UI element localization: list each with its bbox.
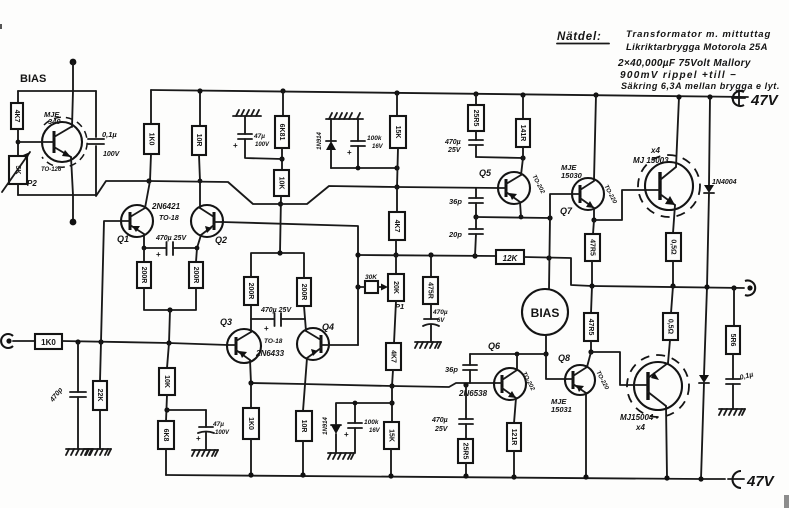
wire 1N4004 line upper [709,97,710,185]
node Q3 emitter [248,380,253,385]
svg-text:0,5Ω: 0,5Ω [670,239,677,255]
capacitor 470p [70,342,86,449]
svg-text:Transformator m. mittuttag: Transformator m. mittuttag [626,29,771,40]
svg-text:25R5: 25R5 [472,110,479,127]
svg-text:1K0: 1K0 [148,133,155,146]
wire x168 chain from input node [167,343,169,368]
wire bias box top edge [18,90,96,92]
wire 47R5 to Q8 collector [590,341,592,352]
resistor 47R5 (lower) [584,313,598,341]
svg-text:4K7: 4K7 [390,350,397,363]
wire 25R5 drop [475,94,477,105]
wire input line [62,341,228,345]
svg-text:475R: 475R [427,282,434,299]
wire 141R to node [522,147,524,158]
node MJ15003 collector rail [676,94,681,99]
node lower net [389,400,394,405]
ground (below 1N914 lower) [328,453,354,459]
svg-text:470µ: 470µ [444,139,461,146]
wire bias bottom [72,195,74,222]
node 25R5 rail [473,91,478,96]
resistor 1K0 (upper) [144,124,159,154]
node output/5R6 [731,285,736,290]
svg-text:4K7: 4K7 [13,110,20,123]
resistor 200R (Q4) [297,278,311,306]
diode D4 1N4004 (lower) [699,375,709,479]
wire to 4K7 upper [396,187,398,212]
svg-text:6K81: 6K81 [278,124,285,141]
svg-text:121R: 121R [510,429,517,446]
svg-text:BIAS: BIAS [531,306,560,320]
svg-text:200R: 200R [247,283,254,300]
node 200R join center (Q3/Q4) [277,250,282,255]
capacitor 47u 100V (upper) [238,133,252,135]
node Q7 emitter [591,217,596,222]
svg-text:20K: 20K [392,281,399,294]
wire 6K8 bottom to rail corner [165,449,167,475]
resistor 121R [507,423,521,451]
node BIAS/Q6 collector [543,351,548,356]
wire lower diode/cap net [336,403,392,424]
wire +47V top rail [151,90,748,97]
node Q7 collector rail [593,92,598,97]
resistor 15K (upper) [390,116,406,148]
transistor Q7 MJE15030 [572,178,604,220]
node 6K81 rail [280,88,285,93]
svg-text:Q6: Q6 [488,341,501,351]
node 141R bottom [520,155,525,160]
wire bias box left upper [17,91,19,103]
svg-text:Q8: Q8 [558,353,570,363]
node rail diode [698,476,703,481]
svg-text:6K8: 6K8 [162,429,169,442]
wire bias top [72,62,74,91]
wire 5R6 drop [733,288,735,326]
node y217 tap [473,214,478,219]
wire 10K bottom to 200R join [280,196,281,253]
wire bias left mid [17,129,19,156]
bias bottom terminal node [70,219,77,226]
node 10K on S-wire [278,201,283,206]
svg-text:P2: P2 [27,179,37,188]
resistor 200R (Q1) [137,262,151,288]
wire S-curve from bias to Q5 base [96,181,498,204]
wiper arrow P2 [2,152,30,192]
svg-text:+: + [344,430,349,439]
resistor 15K (lower) [384,422,399,449]
node rail Q8 [583,474,588,479]
resistor 0,5R (upper) [666,233,681,261]
svg-text:Q5: Q5 [479,168,492,178]
ground (475R) [415,342,441,348]
svg-text:900mV rippel +till −: 900mV rippel +till − [620,70,737,81]
svg-text:25R5: 25R5 [462,443,469,460]
resistor 1K0 (lower) [243,408,259,439]
wire Q7 to MJ15003 base [594,190,646,220]
wire BIAS bottom [545,335,547,354]
svg-text:TO-126: TO-126 [41,167,62,173]
svg-text:+: + [233,141,238,150]
wire bottom rail -47V [166,475,725,479]
wire Q2 emitter to 200R [196,248,197,262]
node 4K7/20K [393,252,398,257]
svg-text:6V: 6V [437,318,445,324]
svg-text:100V: 100V [103,151,121,158]
capacitor 470u 25V (Q1/Q2 emitters) [144,242,197,259]
wire Q1 emitter to 200R [143,248,145,262]
svg-text:10K: 10K [163,375,170,388]
svg-text:100k: 100k [367,135,382,142]
capacitor 470u 6V [423,304,439,342]
wire 10R lower bottom [302,441,304,475]
svg-text:1N914: 1N914 [317,132,323,150]
resistor 0,5R (lower) [663,313,678,340]
potentiometer 20K P1 [388,274,404,301]
svg-text:47µ: 47µ [253,133,265,140]
node output/diode [704,284,709,289]
resistor 22K [93,381,107,410]
diode D2 1N914 (lower) [331,425,341,453]
svg-text:2N6433: 2N6433 [255,349,285,358]
wire 1N4004 line mid-lower [704,287,707,375]
svg-text:100k: 100k [364,419,379,426]
svg-text:4K7: 4K7 [393,220,400,233]
svg-text:BIAS: BIAS [20,73,46,85]
svg-text:Säkring 6,3A mellan brygga e l: Säkring 6,3A mellan brygga e lyt. [621,81,780,91]
potentiometer 5K P2 [9,156,27,184]
node 1N4004 rail [707,94,712,99]
wire Q7 collector [594,95,596,180]
bias top terminal node [70,59,77,66]
svg-text:15K: 15K [394,126,401,139]
wire 0,5R to output rail [672,261,674,286]
node 475R tap [428,252,433,257]
svg-text:Q7: Q7 [560,206,573,216]
svg-text:47V: 47V [750,92,780,109]
svg-text:0,1µ: 0,1µ [102,130,117,139]
wire BIAS to Q8 base [546,354,566,379]
transistor Q5 [498,158,530,217]
transistor Q10 MJ15004 (x4) [627,355,689,477]
transistor Q4 2N6433 [297,306,329,411]
capacitor 47u 100V (lower) [167,410,214,450]
svg-text:Q2: Q2 [215,235,227,245]
svg-text:Likriktarbrygga Motorola 25A: Likriktarbrygga Motorola 25A [626,42,768,53]
wire 0,5R lower to MJ15004 [668,340,670,363]
node rail 121R [511,474,516,479]
node 10R rail [197,88,202,93]
node wiper tap [355,284,360,289]
wire 22K bottom [99,410,101,449]
transistor Q3 2N6433 [227,305,261,383]
node Q1 collector [146,178,151,183]
node rail 15K [388,473,393,478]
capacitor 470u 25V (Q3/Q4) [251,313,304,333]
transistor Q1 2N6421 [121,181,153,248]
input jack J1 [1,334,35,348]
svg-text:0,1µ: 0,1µ [739,371,754,381]
wire 15K drop [396,93,398,116]
svg-text:MJ 15003: MJ 15003 [633,156,669,165]
svg-text:470p: 470p [49,386,65,404]
wire ground to 47u [244,116,246,134]
wire 200R join (Q3/Q4) [251,253,304,278]
wire y217 Q5 emitter line [476,217,550,218]
svg-text:TO-18: TO-18 [159,215,179,222]
svg-text:1N914: 1N914 [323,417,329,435]
svg-text:100V: 100V [255,142,270,148]
wire 1K0 top drop [150,90,152,124]
resistor 5R6 [726,326,740,354]
svg-text:470µ 25V: 470µ 25V [260,307,292,314]
node 470p tap [75,339,80,344]
svg-text:10R: 10R [195,134,202,147]
resistor 4K7 (lower divider) [386,343,401,370]
svg-text:2N6538: 2N6538 [458,389,488,398]
resistor 1K0 (input) [35,334,62,349]
capacitor 0,1u 100V (bias) [88,138,104,140]
wire 47u to 6K81 node [245,139,282,159]
node output/47R5 [589,283,594,288]
wire 47R5 lower drop [591,286,592,313]
resistor 200R (Q2) [189,262,203,288]
output jack J2 [745,281,755,296]
svg-text:470µ 25V: 470µ 25V [155,235,187,242]
svg-text:1K0: 1K0 [41,338,56,347]
svg-text:TO-202: TO-202 [530,174,545,195]
svg-text:2×40,000µF 75Volt Mallory: 2×40,000µF 75Volt Mallory [617,58,751,69]
wire 25R5 bottom [465,463,467,476]
svg-text:340: 340 [48,117,61,126]
power +47V terminal [732,91,780,109]
wire 20K bottom [394,301,396,343]
node rail 25R5 [463,473,468,478]
wire 6K81 drop [282,91,284,116]
svg-text:25V: 25V [434,426,449,433]
node 470u lower tap [463,382,468,387]
capacitor 470u 25V (upper) [469,131,483,157]
node wiper line tap [355,252,360,257]
wire 1K0 to Q1 collector [150,154,151,181]
node Q2 collector [198,179,203,184]
wire 15K bottom [397,148,398,187]
wire 10R top drop [199,91,201,126]
svg-text:15K: 15K [388,429,395,442]
wire 141R drop [522,95,524,119]
capacitor 20p (upper) [469,217,483,256]
scan artifact gray corner bottom-right [784,495,789,508]
resistor 6K8 (lower-left) [158,421,174,449]
wire 22K drop [100,342,101,381]
wire 4K7 lower bottom [392,370,393,386]
resistor 200R (Q3) [244,277,258,305]
resistor 6K81 (upper) [275,116,289,148]
wire join to input line [169,310,170,343]
wire 121R bottom [513,451,515,476]
svg-text:12K: 12K [503,254,519,263]
node bias base tap [16,140,21,145]
svg-text:16V: 16V [372,144,384,150]
capacitor 100K 16V (upper) [347,119,365,168]
node 200R join tap [166,340,171,345]
svg-text:TO-220: TO-220 [594,370,609,391]
node x550 [547,215,552,220]
resistor 10R (lower) [296,411,312,441]
svg-text:200R: 200R [192,267,199,284]
wire 47R5 to output rail [591,261,593,286]
wire 47R5 upper drop [593,220,594,234]
svg-text:47R5: 47R5 [587,319,594,336]
svg-text:25V: 25V [447,147,462,154]
wire to lower net [391,386,393,422]
svg-text:16V: 16V [369,428,381,434]
wire Q6 collector link [517,353,546,355]
wire Q8 to MJ15004 base [591,352,634,385]
wire diode/cap net to 15K [331,167,397,169]
ground (input) [66,449,92,455]
svg-text:22K: 22K [96,389,103,402]
node 20p tap [472,253,477,258]
svg-text:47R5: 47R5 [589,239,596,256]
svg-text:MJ15004 -: MJ15004 - [620,413,659,422]
svg-text:Q3: Q3 [220,317,232,327]
node Q2 emitter cap tap [195,246,200,251]
transistor U1 MJE340 (bias) [18,91,87,195]
capacitor 36p (upper) [469,188,483,217]
node output/0,5R [670,283,675,288]
svg-text:200R: 200R [140,267,147,284]
capacitor 36p (lower) [463,354,477,383]
wire Q2 base feedback [222,222,358,345]
diode D1 1N914 (upper) [326,119,336,168]
node Q8 collector [588,349,593,354]
wire 10R to Q2 collector [199,155,200,181]
svg-text:Q4: Q4 [322,322,334,332]
svg-text:+: + [156,250,161,259]
node rail 1K0 [248,472,253,477]
node 6K81/47u junction [279,156,284,161]
node 22K tap [98,339,103,344]
resistor 475R [423,277,438,304]
ground (47u lower) [192,450,218,456]
node rail MJ15004 [664,475,669,480]
ground (above 47u upper) [233,110,261,116]
wire 12K to output rail [524,257,592,286]
svg-text:+: + [196,434,201,443]
svg-text:100V: 100V [215,430,230,436]
node 47u tap [164,407,169,412]
svg-text:+: + [347,148,352,157]
wire 200R join (Q1/Q2) [144,288,196,310]
wire Q3 emitter to 1K0 [250,383,252,408]
resistor 25R5 (upper) [468,105,484,131]
svg-text:1N4004: 1N4004 [712,179,737,186]
wire bias box right upper [95,91,97,137]
wire 1K0 lower bottom [250,439,252,475]
wire 475R drop [430,255,432,277]
svg-text:1K0: 1K0 [247,417,254,430]
resistor 25R5 (lower) [458,439,473,463]
ground (output) [719,409,745,415]
svg-text:2N6421: 2N6421 [151,202,181,211]
svg-text:+: + [264,324,269,333]
node 15K rail [394,90,399,95]
svg-text:20p: 20p [448,230,462,239]
transistor Q8 MJE15031 [565,352,595,477]
svg-text:0,5Ω: 0,5Ω [667,319,674,335]
node rail 10R [300,472,305,477]
diode D3 1N4004 (upper) [704,185,714,287]
node 141R rail [520,92,525,97]
wire output rail [592,286,744,288]
wire Q4 base [329,344,358,346]
wire Q1 base drop [101,221,121,342]
transistor Q2 2N6421 [191,181,223,248]
resistor 10R (upper) [192,126,206,155]
svg-text:36p: 36p [449,197,462,206]
wire 10K to 6K8 [166,395,167,421]
wire y255 feed line [358,255,496,256]
wire Q6 base line from Q3 emitter [251,383,495,387]
resistor 4K7 (upper divider) [389,212,405,240]
node Q6 collector tap [515,352,520,357]
resistor 10K (lower-left) [159,368,175,395]
wire bias box bottom edge [18,194,96,196]
wire x550 to BIAS circle [549,218,550,289]
svg-text:5R6: 5R6 [729,334,736,347]
resistor 4K7 (bias) [11,103,23,129]
transistor Q9 MJ15003 (x4) [638,97,700,233]
svg-text:47µ: 47µ [212,421,224,428]
node net/15K [356,166,361,171]
resistor 47R5 (upper) [585,234,600,261]
svg-text:47V: 47V [746,473,776,490]
BIAS block circle [522,289,568,335]
wire 6K81 bottom [281,148,283,170]
svg-text:36p: 36p [445,365,458,374]
node Q1 emitter cap tap [142,246,147,251]
transistor Q6 2N6538 [494,354,526,423]
wire bias box right lower [95,146,97,195]
power -47V terminal [728,471,776,490]
wire x550 to Q7 base [550,194,572,218]
resistor 12K [496,250,524,264]
wire cap to 141R node [476,157,523,158]
svg-text:Nätdel:: Nätdel: [557,31,602,43]
svg-text:141R: 141R [519,125,526,142]
capacitor 470u 25V (lower) [459,385,473,439]
paper speck top-left [0,24,2,29]
resistor 10K (middle) [274,170,289,196]
wire 4K7 to y255 wire [395,240,397,255]
node 200R join center [167,307,172,312]
node bias top tap [546,255,551,260]
node Q5 emitter [519,215,524,220]
svg-text:10R: 10R [300,420,307,433]
svg-text:10K: 10K [278,177,285,190]
node 4K7/Q6-base-line [389,383,394,388]
svg-text:15030: 15030 [561,171,583,180]
node divider top on Q5 base line [394,184,399,189]
svg-text:Q1: Q1 [117,234,129,244]
capacitor 100K 16V (lower) [344,403,362,453]
wire 0,5R lower top [671,286,673,313]
svg-text:x4: x4 [635,423,645,432]
capacitor 0,1u (output) [726,354,740,409]
svg-text:200R: 200R [300,284,307,301]
wire Q6 top link [470,353,517,355]
svg-text:TO-18: TO-18 [264,338,283,345]
